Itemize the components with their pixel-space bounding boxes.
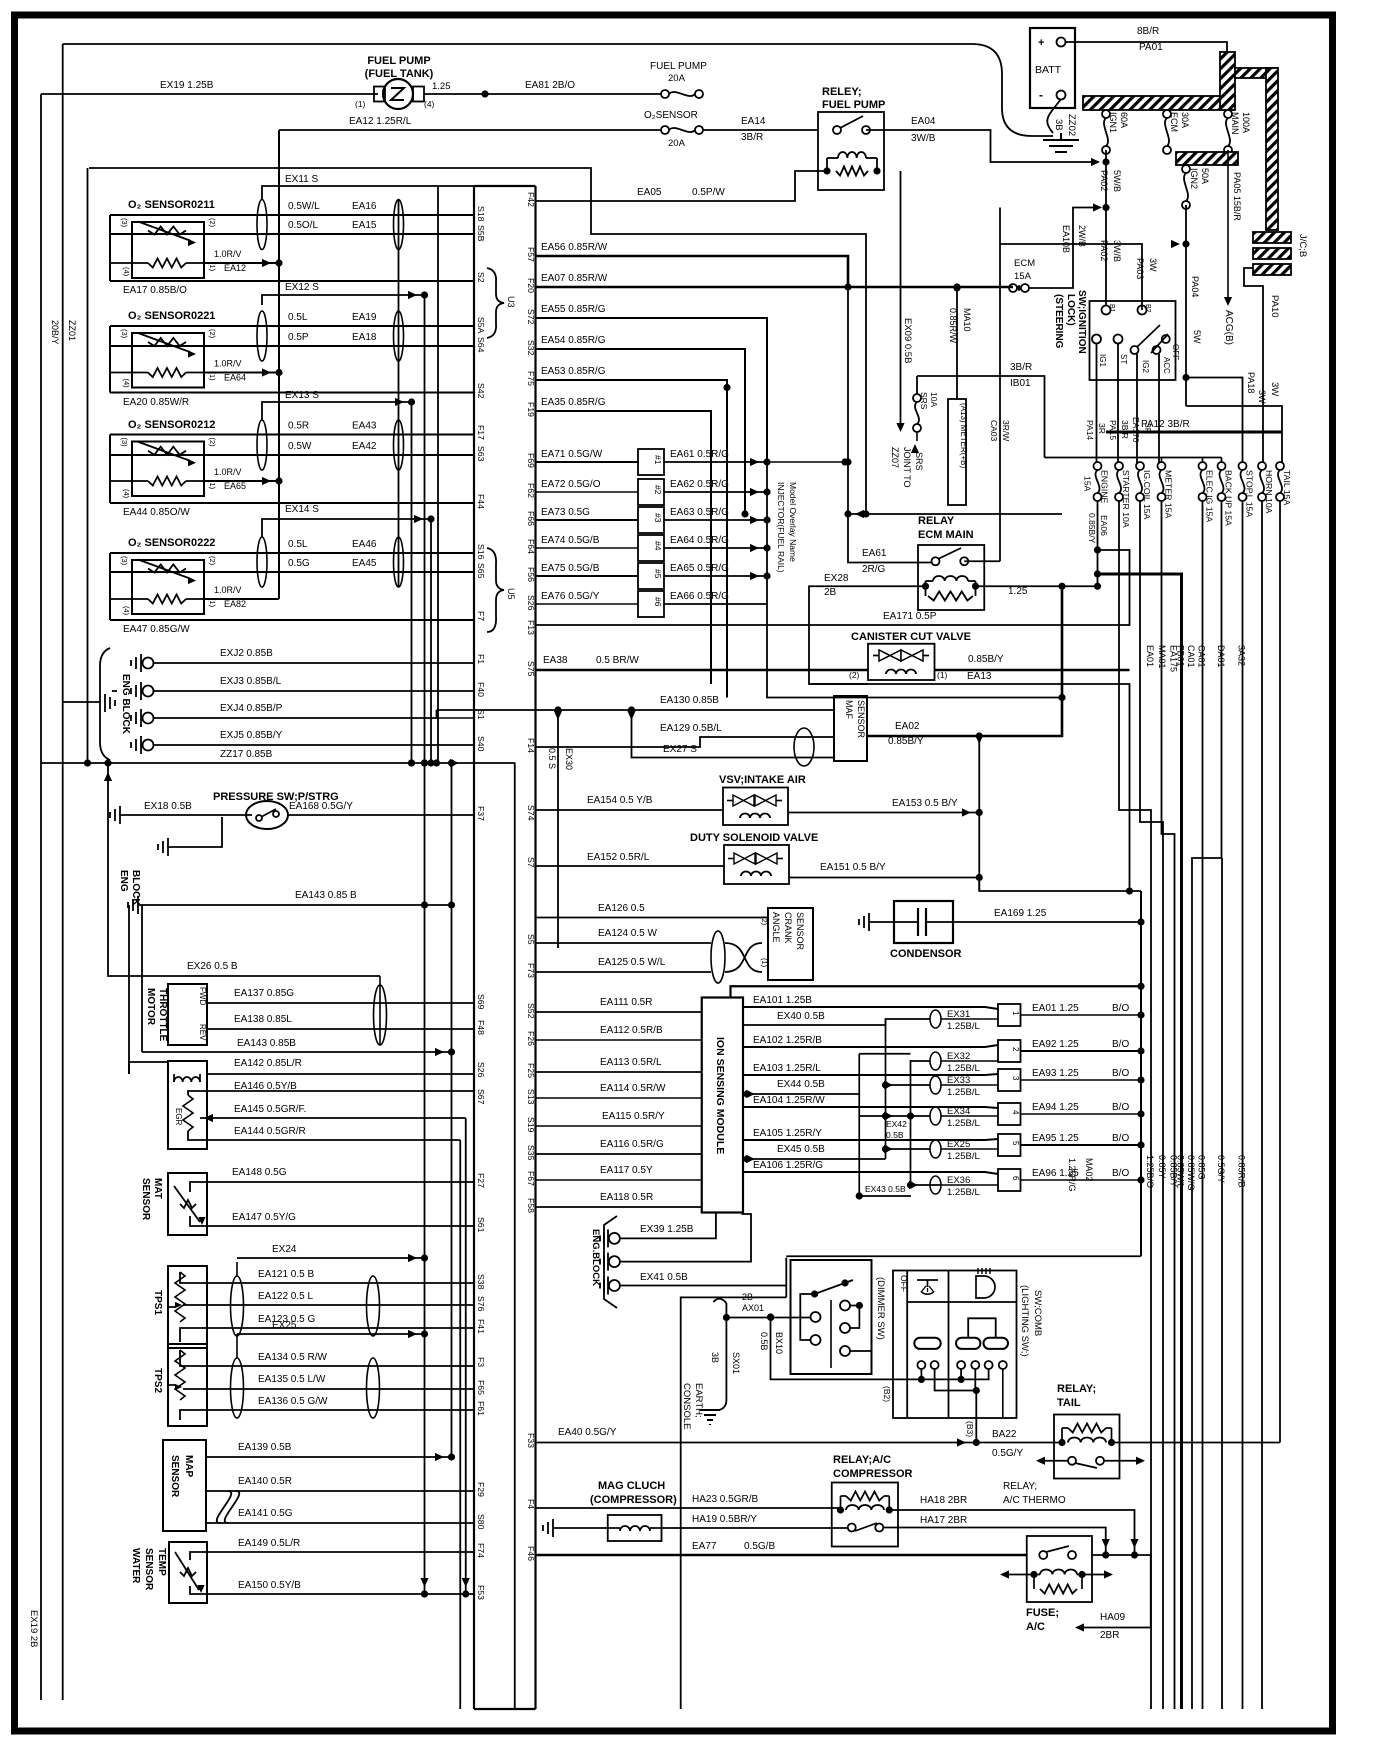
- solenoid duty valve: [724, 845, 789, 884]
- fusible link IGN2 bar: [1176, 152, 1238, 165]
- svg-text:PA04: PA04: [1190, 276, 1200, 297]
- svg-text:(DIMMER SW): (DIMMER SW): [875, 1277, 886, 1340]
- svg-text:EA75 0.5G/B: EA75 0.5G/B: [541, 563, 600, 574]
- wire bundle TAIL to relay: [1279, 501, 1281, 1443]
- svg-text:EX30: EX30: [564, 748, 574, 770]
- net label MA01: [1157, 645, 1167, 669]
- wire EA139 0.5B: [206, 1442, 452, 1461]
- wire EA93 1.25 B/O: [1021, 1068, 1145, 1084]
- wire HA18 2BR: [889, 1495, 1138, 1559]
- wire B2 feed PA03 3W: [1000, 244, 1158, 310]
- svg-text:F75: F75: [526, 371, 536, 386]
- wire EX12 S shield: [262, 282, 428, 305]
- wire EA72 to injector #2: [536, 479, 639, 492]
- svg-text:EA82: EA82: [224, 599, 246, 609]
- svg-text:S19: S19: [526, 1117, 536, 1133]
- svg-text:AX01: AX01: [742, 1303, 764, 1313]
- svg-text:1.25B/L: 1.25B/L: [947, 1021, 980, 1032]
- svg-text:20A: 20A: [668, 73, 686, 84]
- svg-text:EA144 0.5GR/R: EA144 0.5GR/R: [234, 1126, 306, 1137]
- wire y234 jog: [89, 168, 866, 514]
- wire label EX18 0.5B: [144, 801, 192, 812]
- wire EXJ4 jog to S1: [437, 717, 475, 719]
- svg-text:LOCK): LOCK): [1065, 294, 1076, 326]
- svg-text:3B/R: 3B/R: [741, 132, 763, 143]
- svg-text:STOP.L 15A: STOP.L 15A: [1245, 470, 1255, 517]
- twisted pair ellipse s2 b: [394, 311, 404, 361]
- svg-text:ION SENSING MODULE: ION SENSING MODULE: [714, 1037, 726, 1154]
- wire label PA15: [1108, 420, 1118, 440]
- fuse MAIN 100A: [1224, 110, 1251, 154]
- solenoid canister cut valve: [868, 644, 935, 680]
- wire bus 465 vertical: [465, 1118, 467, 1594]
- twisted ellipse EX25: [930, 1139, 980, 1162]
- svg-text:CRANK: CRANK: [783, 912, 793, 944]
- svg-text:S5B: S5B: [476, 225, 486, 242]
- twisted pair ellipse s1 b: [394, 200, 404, 250]
- label FUEL PUMP (FUEL TANK): [365, 55, 434, 80]
- label Model Overlay Name: [788, 482, 798, 562]
- svg-text:DUTY SOLENOID VALVE: DUTY SOLENOID VALVE: [690, 832, 818, 844]
- size label 1.25B/O: [1145, 1155, 1155, 1188]
- label B3: [965, 1421, 975, 1437]
- wire EX30 0.5S: [547, 710, 574, 948]
- twisted pair ellipse s3 b: [394, 420, 404, 470]
- svg-text:SRS: SRS: [919, 392, 929, 410]
- wire EX11 S shield: [262, 174, 474, 199]
- wire SX01 3B to earth: [710, 1318, 741, 1411]
- wire EA18 0.5P: [110, 332, 474, 346]
- svg-text:ECM MAIN: ECM MAIN: [918, 529, 974, 541]
- relay fuel pump: [818, 112, 884, 190]
- wire ECM main relay coil net: [976, 583, 1098, 590]
- svg-text:S35: S35: [526, 1145, 536, 1161]
- svg-text:JOINT TO: JOINT TO: [902, 447, 912, 488]
- svg-text:MAT: MAT: [152, 1178, 163, 1199]
- wire ENGINE fuse output: [1094, 501, 1101, 590]
- TEMP thermistor: [175, 1552, 205, 1593]
- svg-text:0.85Y: 0.85Y: [1157, 1155, 1167, 1179]
- wire EA56 0.85R/W: [536, 242, 849, 287]
- svg-text:2B: 2B: [824, 587, 837, 598]
- ground lug EXJ2: [131, 648, 474, 672]
- svg-text:EA92 1.25: EA92 1.25: [1032, 1039, 1079, 1050]
- ground eng block 2: [128, 896, 138, 914]
- svg-text:FUEL PUMP: FUEL PUMP: [367, 55, 430, 67]
- svg-text:50A: 50A: [1200, 168, 1210, 184]
- svg-text:OFF: OFF: [899, 1275, 909, 1292]
- wire EA14 3B/R: [703, 116, 818, 143]
- wire dimmer drop BX10: [759, 1313, 990, 1383]
- fuse FUEL PUMP 20A: [650, 61, 707, 98]
- svg-text:O₂ SENSOR0222: O₂ SENSOR0222: [128, 537, 215, 549]
- wire EA134 0.5 R/W: [180, 1350, 474, 1366]
- svg-text:30A: 30A: [1180, 112, 1190, 128]
- svg-text:EA44 0.85O/W: EA44 0.85O/W: [123, 507, 190, 518]
- wire PA12 3B/R: [1106, 419, 1282, 432]
- twisted ellipse EX34: [930, 1106, 980, 1129]
- svg-text:EA12 1.25R/L: EA12 1.25R/L: [349, 116, 412, 127]
- ground mag clutch: [543, 1519, 608, 1537]
- label RELAY A/C COMPRESSOR: [833, 1454, 913, 1480]
- fuse ECM 15A: [1009, 258, 1035, 292]
- svg-text:EA115 0.5R/Y: EA115 0.5R/Y: [602, 1111, 665, 1122]
- wire EA61 from injector #1: [664, 449, 771, 466]
- relay AC compressor: [832, 1483, 898, 1547]
- svg-text:RELAY: RELAY: [918, 515, 955, 527]
- svg-text:S13: S13: [526, 1089, 536, 1105]
- wire EA146 0.5Y/B: [188, 1081, 474, 1095]
- twisted ellipse EX36: [930, 1175, 980, 1198]
- svg-text:EA106 1.25R/G: EA106 1.25R/G: [753, 1160, 823, 1171]
- wire EX41 net to bus: [785, 1258, 787, 1298]
- wire bundle FB01 thick: [1098, 574, 1182, 1709]
- wire EX25 shield: [237, 1320, 428, 1338]
- svg-text:EA76 0.5G/Y: EA76 0.5G/Y: [541, 591, 600, 602]
- wire EA102 1.25R/B: [743, 1035, 998, 1047]
- dimmer switch box: [791, 1260, 872, 1374]
- net label EA01: [1145, 645, 1155, 667]
- svg-text:EA141 0.5G: EA141 0.5G: [238, 1508, 293, 1519]
- svg-text:EX26 0.5 B: EX26 0.5 B: [187, 961, 238, 972]
- svg-text:B/O: B/O: [1112, 1068, 1129, 1079]
- wire shield bus vertical: [87, 168, 89, 763]
- svg-text:100A: 100A: [1241, 112, 1251, 133]
- svg-text:(1): (1): [937, 670, 948, 680]
- svg-text:EA56 0.85R/W: EA56 0.85R/W: [541, 242, 608, 253]
- svg-text:EA65: EA65: [224, 481, 246, 491]
- connector inner line: [514, 763, 516, 1710]
- svg-text:(LIGHTING SW;): (LIGHTING SW;): [1019, 1285, 1030, 1357]
- svg-text:EA104 1.25R/W: EA104 1.25R/W: [753, 1095, 825, 1106]
- svg-text:5W/B: 5W/B: [1112, 170, 1122, 192]
- wire EA152 0.5R/L: [536, 852, 725, 866]
- label DUTY SOLENOID VALVE: [690, 832, 818, 844]
- wire EA19 0.5L: [110, 312, 474, 326]
- wire bundle DA01: [1221, 858, 1224, 1709]
- svg-text:3W: 3W: [1148, 258, 1158, 272]
- svg-text:EA111 0.5R: EA111 0.5R: [600, 997, 652, 1008]
- svg-text:EA152 0.5R/L: EA152 0.5R/L: [587, 852, 650, 863]
- svg-text:EX27 S: EX27 S: [663, 744, 697, 755]
- fuse SRS 10A: [913, 376, 939, 432]
- wire EA144 0.5GR/R: [188, 1126, 460, 1140]
- svg-text:REV: REV: [198, 1024, 207, 1041]
- svg-text:EA07 0.85R/W: EA07 0.85R/W: [541, 273, 608, 284]
- fuse HORN 10A: [1258, 462, 1274, 514]
- wire vertical 859: [859, 1054, 910, 1196]
- svg-text:EA96 1.25: EA96 1.25: [1032, 1168, 1079, 1179]
- lighting switch box: [893, 1271, 1017, 1419]
- svg-text:EA147 0.5Y/G: EA147 0.5Y/G: [232, 1212, 296, 1223]
- wire EX34 to coil box: [941, 1115, 998, 1117]
- svg-text:EA105 1.25R/Y: EA105 1.25R/Y: [753, 1128, 822, 1139]
- wire PA18 3W: [1186, 372, 1267, 466]
- svg-text:ECM: ECM: [1014, 258, 1035, 269]
- injector #2 box: [638, 479, 664, 505]
- svg-text:3R: 3R: [1097, 423, 1107, 434]
- svg-text:S67: S67: [476, 1089, 486, 1105]
- wire IG1 drop: [1096, 343, 1098, 466]
- svg-text:EA116 0.5R/G: EA116 0.5R/G: [600, 1139, 664, 1150]
- label SW;IGNITION: [1076, 290, 1087, 354]
- svg-text:PA02: PA02: [1099, 170, 1109, 191]
- svg-text:U3: U3: [506, 296, 516, 308]
- wire label EA170: [1131, 417, 1141, 443]
- wire EX19 1.25B fuel pump ground: [41, 93, 378, 95]
- fusible link MAIN vertical: [1220, 52, 1235, 110]
- wire EA168 0.5G/Y: [288, 801, 474, 815]
- svg-text:#1: #1: [653, 455, 663, 465]
- wire EA05 0.5P/W: [536, 171, 828, 201]
- wire 8B/R PA01 battery positive: [1065, 26, 1227, 53]
- svg-text:EA63 0.5R/G: EA63 0.5R/G: [670, 507, 729, 518]
- svg-text:(A13) METER(+B): (A13) METER(+B): [959, 403, 968, 468]
- wire EA142 0.85L/R: [129, 1058, 474, 1074]
- wire HA23 0.5GR/B: [536, 1494, 841, 1508]
- svg-text:EA10B: EA10B: [1061, 225, 1071, 253]
- lighting contacts circles: [917, 1361, 1006, 1369]
- wire EA135 0.5 L/W: [183, 1374, 474, 1389]
- svg-text:EA54 0.85R/G: EA54 0.85R/G: [541, 335, 606, 346]
- label CONDENSOR: [890, 948, 962, 960]
- svg-text:RELAY;A/C: RELAY;A/C: [833, 1454, 891, 1466]
- wire lighting drop small: [1002, 1369, 1004, 1418]
- svg-text:EA130 0.85B: EA130 0.85B: [660, 695, 719, 706]
- svg-text:HA17 2BR: HA17 2BR: [920, 1515, 967, 1526]
- svg-text:F29: F29: [476, 1482, 486, 1497]
- svg-text:(STEERING: (STEERING: [1053, 294, 1064, 349]
- svg-text:TPS2: TPS2: [152, 1368, 163, 1393]
- svg-text:2: 2: [1011, 1047, 1020, 1052]
- svg-text:0.5G/B: 0.5G/B: [744, 1541, 775, 1552]
- wire EA16 0.5W/L: [110, 201, 474, 215]
- twisted pair ellipse s4 b: [394, 537, 404, 587]
- svg-text:O₂SENSOR: O₂SENSOR: [644, 110, 698, 121]
- svg-text:FWD: FWD: [198, 987, 207, 1005]
- wire EA74 to injector #4: [536, 535, 639, 548]
- svg-text:EA134 0.5 R/W: EA134 0.5 R/W: [258, 1352, 327, 1363]
- label B2: [882, 1386, 892, 1402]
- svg-text:BLOCK: BLOCK: [130, 870, 141, 906]
- svg-text:EA118 0.5R: EA118 0.5R: [600, 1192, 653, 1203]
- wire mid ground: [620, 1214, 751, 1262]
- MAF sensor box: [834, 696, 867, 761]
- twisted ellipse throttle: [374, 985, 387, 1045]
- svg-text:EX19 1.25B: EX19 1.25B: [160, 80, 214, 91]
- svg-text:1.0R/V: 1.0R/V: [214, 585, 242, 595]
- twisted ellipse TPS2 a: [231, 1358, 244, 1418]
- svg-text:SENSOR: SENSOR: [140, 1178, 151, 1221]
- svg-text:EA62 0.5R/G: EA62 0.5R/G: [670, 479, 729, 490]
- svg-text:EX13 S: EX13 S: [285, 390, 319, 401]
- wire EA40 0.5G/Y: [536, 1427, 977, 1447]
- net label EA175: [1169, 645, 1179, 672]
- wire EA149 0.5L/R: [190, 1538, 474, 1560]
- svg-text:15A: 15A: [1083, 476, 1093, 492]
- wire label 1.25R/G: [1067, 1158, 1077, 1192]
- wire label EA61 2R/G: [862, 548, 887, 575]
- fusible link bar horizontal: [1083, 96, 1233, 110]
- svg-text:IGN1: IGN1: [1108, 112, 1118, 133]
- svg-text:(B3): (B3): [965, 1421, 975, 1437]
- svg-text:MAIN: MAIN: [1230, 112, 1240, 135]
- wire EA142 left vert: [128, 905, 130, 1074]
- svg-text:EA66 0.5R/G: EA66 0.5R/G: [670, 591, 729, 602]
- wire EA12 1.25R/L: [279, 116, 665, 130]
- label 1.25: [1008, 586, 1028, 597]
- wire EA64 from injector #4: [664, 535, 771, 552]
- fuse IGN2 50A: [1182, 165, 1210, 209]
- wire fuse AC left arrow: [1000, 1570, 1034, 1578]
- svg-text:EA125 0.5 W/L: EA125 0.5 W/L: [598, 957, 666, 968]
- pin label (2): [849, 670, 860, 680]
- svg-text:F37: F37: [476, 806, 486, 821]
- wire EA66 from injector #6: [664, 591, 767, 604]
- svg-text:EA168 0.5G/Y: EA168 0.5G/Y: [289, 801, 353, 812]
- wire EA12 heater: [204, 259, 283, 267]
- wire label 3R a: [1097, 423, 1107, 434]
- wire EA143 0.85B lower: [142, 1038, 455, 1056]
- O2 sensor 0212: [110, 419, 474, 518]
- svg-text:F25: F25: [526, 1063, 536, 1078]
- TEMP sensor box: [169, 1542, 207, 1603]
- svg-text:EA19: EA19: [352, 312, 377, 323]
- wire lighting drops B2: [921, 1369, 988, 1379]
- label ENG.BLOCK 3: [590, 1229, 601, 1286]
- svg-text:MA02: MA02: [1084, 1158, 1094, 1182]
- svg-text:F67: F67: [526, 1171, 536, 1186]
- svg-text:F64: F64: [526, 539, 536, 554]
- svg-text:CONDENSOR: CONDENSOR: [890, 948, 962, 960]
- wire bundle 3W PA10 lower: [1262, 465, 1264, 467]
- relay tail: [1054, 1415, 1120, 1479]
- wire EA136 0.5 G/W: [180, 1396, 474, 1420]
- wire EA38 0.5BR/W: [536, 655, 869, 670]
- svg-text:S42: S42: [476, 383, 486, 399]
- wire EA92 1.25 B/O: [1021, 1039, 1145, 1055]
- wire EX24 shield: [237, 1244, 428, 1262]
- svg-text:S63: S63: [476, 446, 486, 462]
- svg-text:S5: S5: [526, 934, 536, 945]
- pin label IG1: [1098, 354, 1107, 367]
- ion sensing module box: [702, 998, 743, 1213]
- svg-text:ENG BLOCK: ENG BLOCK: [120, 674, 131, 735]
- svg-text:4: 4: [1011, 1110, 1020, 1115]
- svg-text:ZZ17 0.85B: ZZ17 0.85B: [220, 749, 273, 760]
- fuse TAIL 15A: [1276, 462, 1292, 505]
- pin label (2) crank: [760, 916, 769, 926]
- wire injector rail bus: [767, 462, 1066, 701]
- svg-text:20A: 20A: [668, 138, 686, 149]
- EGR coil: [174, 1074, 200, 1082]
- svg-text:EX11 S: EX11 S: [285, 174, 318, 185]
- wire label PA02: [1099, 170, 1109, 191]
- svg-text:0.5 S: 0.5 S: [547, 748, 557, 769]
- bracket eng block 3: [604, 1216, 617, 1308]
- size label 0.5G/Y: [1216, 1155, 1226, 1183]
- svg-text:EA101 1.25B: EA101 1.25B: [753, 995, 812, 1006]
- wire bus EX24-25 continuation: [424, 763, 426, 1594]
- svg-text:BA22: BA22: [992, 1429, 1017, 1440]
- wire label 3W right: [1269, 382, 1280, 396]
- wire bus to lighting: [786, 1255, 1141, 1257]
- wire EX14 S shield: [262, 504, 435, 537]
- TPS1 box: [168, 1266, 207, 1348]
- svg-text:CA03: CA03: [989, 420, 999, 442]
- twisted pair ellipse s4 a: [257, 537, 267, 587]
- svg-text:Model Overlay Name: Model Overlay Name: [788, 482, 798, 562]
- svg-text:EA94 1.25: EA94 1.25: [1032, 1102, 1079, 1113]
- svg-text:EA129 0.5B/L: EA129 0.5B/L: [660, 723, 722, 734]
- svg-text:+: +: [1038, 37, 1044, 49]
- ground earth console: [700, 1410, 720, 1425]
- svg-text:MA01: MA01: [1157, 645, 1167, 669]
- wire EX41 drop long: [681, 1297, 787, 1709]
- svg-text:0.85B/Y: 0.85B/Y: [888, 736, 924, 747]
- svg-text:(2): (2): [760, 916, 769, 926]
- injector #3 box: [638, 507, 664, 533]
- svg-text:S65: S65: [476, 563, 486, 579]
- wire EX45 0.5B: [743, 1144, 886, 1163]
- wire label 3R c: [1143, 423, 1153, 434]
- solenoid VSV intake air: [723, 788, 788, 826]
- svg-text:PA18: PA18: [1246, 372, 1256, 393]
- wire EA104 1.25R/W: [743, 1095, 998, 1108]
- wire shield vertical ell: [398, 199, 400, 587]
- wire engine ground to battery: [63, 44, 1053, 136]
- svg-text:O₂ SENSOR0212: O₂ SENSOR0212: [128, 419, 215, 431]
- svg-text:EARTH;: EARTH;: [693, 1383, 704, 1418]
- svg-text:EXJ5 0.85B/Y: EXJ5 0.85B/Y: [220, 730, 283, 741]
- wire label ZZ02: [1066, 114, 1077, 136]
- wire EX28 2B: [809, 573, 926, 684]
- wire EX25 to coil box: [941, 1148, 998, 1150]
- TPS2 resistor: [168, 1350, 185, 1400]
- wire EA150 0.5Y/B: [190, 1578, 474, 1598]
- svg-text:F73: F73: [526, 963, 536, 978]
- svg-text:S64: S64: [476, 337, 486, 353]
- svg-text:S40: S40: [476, 736, 486, 752]
- label FUSE AC: [1026, 1607, 1059, 1633]
- injector #1 box: [638, 449, 664, 475]
- svg-text:0.85W/L: 0.85W/L: [1176, 1155, 1186, 1189]
- ignition coil box 5: [998, 1134, 1021, 1156]
- TPS1 resistor: [168, 1272, 185, 1322]
- svg-text:EA74 0.5G/B: EA74 0.5G/B: [541, 535, 600, 546]
- switch pressure: [246, 801, 288, 829]
- svg-text:S38: S38: [476, 1274, 486, 1290]
- svg-text:0.5G/Y: 0.5G/Y: [1216, 1155, 1226, 1183]
- svg-text:0.5B: 0.5B: [886, 1130, 904, 1140]
- wire EA46 0.5L: [110, 539, 474, 553]
- net label DA01: [1216, 645, 1226, 668]
- svg-text:F58: F58: [526, 1198, 536, 1213]
- svg-text:PA01: PA01: [1139, 42, 1163, 53]
- twisted ellipse MAF: [794, 728, 814, 766]
- ignition coil box 3: [998, 1069, 1021, 1091]
- svg-text:S26: S26: [476, 1062, 486, 1078]
- svg-text:EA64: EA64: [224, 373, 246, 383]
- svg-text:2B: 2B: [742, 1292, 753, 1302]
- svg-text:S18: S18: [476, 206, 486, 222]
- MAT thermistor: [174, 1186, 206, 1225]
- wire ZZ01 vertical: [63, 44, 100, 1700]
- label TEMP SENSOR WATER: [130, 1548, 167, 1591]
- svg-text:ENGINE: ENGINE: [1100, 470, 1110, 504]
- EGR resistor: [183, 1095, 193, 1131]
- EGR box: [168, 1061, 207, 1149]
